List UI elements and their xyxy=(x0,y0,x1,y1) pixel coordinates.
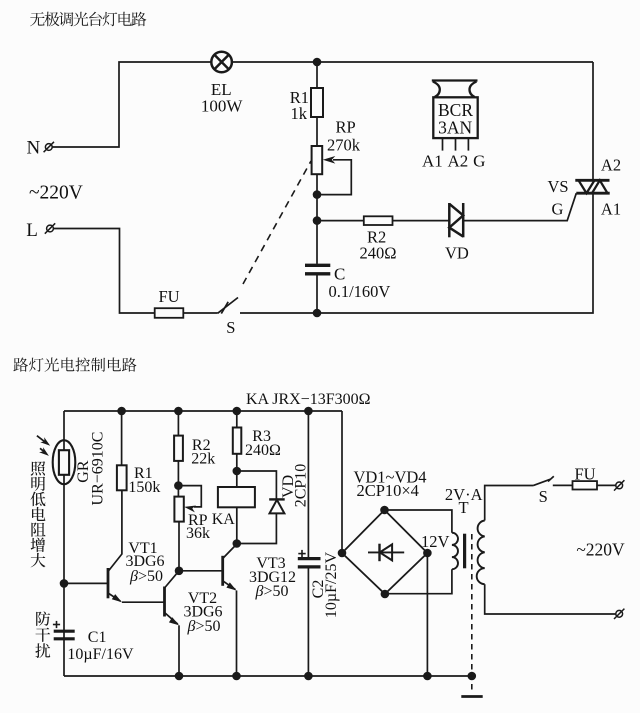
node bridge top xyxy=(380,506,389,515)
title: 无极调光台灯电路 xyxy=(30,12,146,27)
diode VD bottom (2CP10) xyxy=(269,499,285,513)
wire VT1 emitter to VT2 base xyxy=(122,601,165,603)
node RP wiper junction xyxy=(174,481,183,490)
svg-text:~220V: ~220V xyxy=(576,540,625,560)
wire node to cap C xyxy=(316,221,318,264)
wire N to lamp xyxy=(53,62,212,147)
capacitor C2 xyxy=(298,559,321,567)
transistor VT3 xyxy=(221,556,224,586)
wire secondary bottom to bridge xyxy=(385,569,452,593)
fuse FU top xyxy=(155,308,184,318)
terminal AC bottom xyxy=(614,609,624,619)
svg-text:A2: A2 xyxy=(448,151,469,170)
wire bus to R3 xyxy=(236,411,238,428)
BCR pin A1 lead xyxy=(442,138,444,151)
wire FU to terminal xyxy=(597,484,616,486)
svg-text:150k: 150k xyxy=(128,479,160,496)
svg-text:2CP10×4: 2CP10×4 xyxy=(356,481,419,500)
terminal AC top xyxy=(614,480,624,490)
wire cap C to bottom xyxy=(316,275,318,313)
plus sign C2 xyxy=(298,550,305,557)
wire to VT3 base xyxy=(179,570,223,572)
wire bus to R1 xyxy=(316,62,318,88)
svg-text:G: G xyxy=(552,199,564,218)
node KA-VD-VT3c xyxy=(233,539,242,548)
switch S bottom lever xyxy=(534,479,551,485)
node junction C bottom xyxy=(313,309,322,318)
wire bridge right to bus xyxy=(426,553,428,676)
wire lamp to right bus top xyxy=(232,61,593,63)
svg-text:A1: A1 xyxy=(422,151,443,170)
transformer shield dashed to ground xyxy=(471,534,473,694)
wire R1b to VT1 collector xyxy=(108,490,122,571)
wire R1 to RP xyxy=(316,117,318,146)
light arrow 2 head xyxy=(39,447,49,456)
wire primary top to switch S xyxy=(485,486,534,521)
node bus ground xyxy=(468,672,477,681)
wire C2 to bus xyxy=(307,568,309,676)
svg-text:22k: 22k xyxy=(191,451,215,468)
triac VS xyxy=(575,180,609,193)
node bus C2 xyxy=(304,407,313,416)
wire L to FU xyxy=(54,229,155,314)
light arrow 1 head xyxy=(40,437,50,446)
wire VT3 emitter to bus xyxy=(236,591,238,677)
svg-text:L: L xyxy=(26,220,38,241)
lamp EL xyxy=(211,52,232,73)
bottom bus xyxy=(64,675,472,677)
BCR pin A2 lead xyxy=(455,138,457,151)
node bus R2b xyxy=(174,407,183,416)
wire to R2 xyxy=(317,220,364,222)
text 照明低电阻增大 xyxy=(31,461,46,567)
svg-text:FU: FU xyxy=(574,464,595,483)
bridge rectifier VD1-VD4 xyxy=(342,510,427,594)
wire bus to R1b xyxy=(121,411,123,465)
node bridge right xyxy=(423,549,432,558)
VT1 emitter arrow xyxy=(112,594,122,602)
transistor VT1 xyxy=(107,568,110,598)
svg-text:12V: 12V xyxy=(421,532,450,551)
svg-text:36k: 36k xyxy=(186,525,210,542)
node bus bridge xyxy=(423,672,432,681)
svg-text:KA JRX−13F300Ω: KA JRX−13F300Ω xyxy=(246,391,371,408)
BCR pin G lead xyxy=(467,138,469,151)
svg-text:1k: 1k xyxy=(291,104,308,123)
switch S bottom tick xyxy=(548,476,554,481)
node bus R3b xyxy=(233,407,242,416)
svg-text:UR−6910C: UR−6910C xyxy=(90,432,107,506)
potentiometer RP bottom xyxy=(174,497,183,522)
wire bus to triac A2 xyxy=(592,62,594,180)
svg-text:FU: FU xyxy=(158,287,179,306)
node RP bottom junction xyxy=(313,190,322,199)
left rail xyxy=(63,411,65,676)
top bus bottom circuit xyxy=(64,410,342,412)
svg-text:N: N xyxy=(27,138,41,159)
svg-text:RP: RP xyxy=(336,118,356,137)
VT3 emitter xyxy=(223,581,236,590)
relay coil KA xyxy=(218,487,255,507)
switch S tick xyxy=(221,302,228,314)
wire RP to R2 node xyxy=(316,174,318,220)
svg-text:100W: 100W xyxy=(201,97,244,116)
title: 路灯光电控制电路 xyxy=(13,357,136,371)
resistor R1 bottom xyxy=(117,465,127,490)
RPb wiper arrow xyxy=(184,506,196,513)
node bus C2 bottom xyxy=(304,672,313,681)
svg-text:A1: A1 xyxy=(601,199,621,218)
VT2 emitter arrow xyxy=(169,617,179,625)
wire FU to S xyxy=(183,312,217,314)
wire R2 to VD xyxy=(393,220,450,222)
transformer T primary winding xyxy=(477,521,485,585)
wire R3 to KA xyxy=(236,454,238,487)
resistor R2 bottom xyxy=(174,436,183,461)
wire S to FU bottom xyxy=(553,484,573,486)
svg-text:G: G xyxy=(473,151,485,170)
light arrow 2 xyxy=(40,448,45,452)
VT2 collector diag xyxy=(165,571,180,588)
terminal N xyxy=(44,142,54,152)
capacitor C top circuit xyxy=(305,265,330,274)
light arrow 1 xyxy=(37,436,46,443)
wire bus to R2b xyxy=(177,411,179,436)
node junction top bus R1 xyxy=(313,58,322,67)
wire VD branch bottom xyxy=(237,513,277,543)
switch S lever xyxy=(218,298,238,314)
svg-text:270k: 270k xyxy=(327,136,361,155)
VT2 emitter xyxy=(165,613,178,625)
node bridge left xyxy=(338,549,347,558)
node VT1 base left rail xyxy=(60,579,69,588)
wire RPb to VT2 collector node xyxy=(178,522,180,571)
wire bus to bridge left xyxy=(341,411,343,553)
photoresistor GR xyxy=(53,440,76,484)
svg-text:240Ω: 240Ω xyxy=(245,442,281,459)
bridge inner diode xyxy=(368,544,404,562)
svg-text:β>50: β>50 xyxy=(187,618,221,635)
wire GR to VT1 base xyxy=(64,582,108,584)
VT3 collector diag xyxy=(223,544,237,559)
svg-text:β>50: β>50 xyxy=(129,568,163,585)
node bus VT2e xyxy=(175,672,184,681)
node bus R1b xyxy=(117,407,126,416)
text 防干扰 xyxy=(35,611,50,658)
svg-text:3AN: 3AN xyxy=(438,118,472,138)
svg-text:C: C xyxy=(334,265,345,284)
svg-text:β>50: β>50 xyxy=(255,583,289,600)
transformer T secondary winding xyxy=(452,533,458,570)
capacitor C1 xyxy=(54,631,75,639)
resistor R2 top xyxy=(364,216,393,225)
svg-text:KA: KA xyxy=(212,511,236,528)
wire VD branch top xyxy=(237,471,277,499)
node bridge bottom xyxy=(381,590,390,599)
resistor R1 xyxy=(311,88,323,117)
VT3 emitter arrow xyxy=(226,582,236,590)
svg-text:10µF/25V: 10µF/25V xyxy=(323,552,340,619)
wire bridge top to secondary xyxy=(385,510,452,533)
transformer core bar xyxy=(463,534,466,569)
dashed coupling S-RP xyxy=(243,161,311,284)
svg-text:S: S xyxy=(226,318,235,337)
BCR 3AN package outline xyxy=(432,81,478,139)
fuse FU bottom xyxy=(573,481,598,489)
svg-text:10µF/16V: 10µF/16V xyxy=(67,646,134,663)
wire R2b to RP xyxy=(177,461,179,497)
VT1 emitter xyxy=(108,593,121,601)
wire RP wiper loop xyxy=(317,160,351,195)
resistor R3 xyxy=(233,428,242,454)
wire VD to triac gate xyxy=(463,193,576,220)
node VT2 collector xyxy=(175,567,184,576)
wire S to triac A1 xyxy=(240,193,593,313)
node bus VT3e xyxy=(232,672,241,681)
plus sign C1 xyxy=(53,621,60,628)
wire VT2 emitter to bus xyxy=(178,625,180,676)
svg-text:A2: A2 xyxy=(601,155,621,174)
node R2 branch xyxy=(313,216,322,225)
transistor VT2 xyxy=(163,587,166,617)
wire primary bottom to terminal xyxy=(485,584,616,614)
svg-text:S: S xyxy=(539,487,548,506)
svg-text:VS: VS xyxy=(547,177,568,196)
svg-text:~220V: ~220V xyxy=(29,183,83,204)
svg-text:2CP10: 2CP10 xyxy=(293,464,310,508)
svg-text:VD: VD xyxy=(445,244,469,263)
wire bus to C2 xyxy=(307,411,309,557)
diac VD xyxy=(449,203,463,237)
ground xyxy=(461,695,482,698)
wire RPb wiper loop xyxy=(178,486,201,507)
potentiometer RP xyxy=(312,146,323,174)
RP wiper arrow xyxy=(323,156,336,164)
svg-text:0.1/160V: 0.1/160V xyxy=(328,282,390,301)
terminal L xyxy=(45,223,55,233)
node R3-VD xyxy=(233,467,242,476)
svg-text:C1: C1 xyxy=(88,629,107,646)
svg-text:T: T xyxy=(458,498,468,517)
svg-text:240Ω: 240Ω xyxy=(359,244,396,263)
wire KA to VT3 collector node xyxy=(236,507,238,544)
